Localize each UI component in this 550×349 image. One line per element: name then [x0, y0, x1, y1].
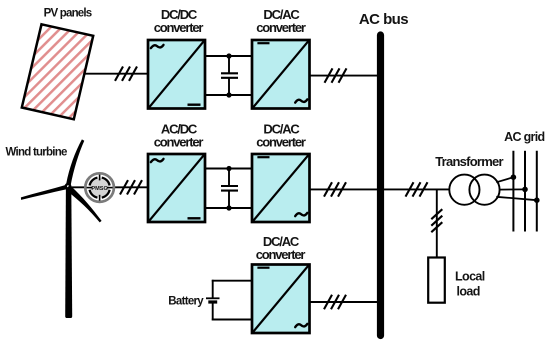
svg-text:Local: Local	[455, 270, 485, 284]
junction dot row2 bottom	[226, 205, 231, 210]
converter U5 DC/AC box	[252, 265, 310, 334]
svg-text:converter: converter	[154, 134, 204, 149]
AC grid phase line 3	[536, 151, 538, 232]
battery vertical wire lower	[212, 302, 214, 320]
svg-text:Battery: Battery	[168, 296, 204, 308]
wind turbine hub	[65, 183, 72, 190]
battery bracket top wire	[212, 280, 252, 282]
three-phase slashes on PV wire	[115, 67, 137, 81]
wire hub to PMSG and PMSG to AC/DC converter	[68, 186, 149, 188]
svg-text:converter: converter	[256, 134, 306, 149]
converter U2 DC/AC box	[252, 40, 310, 109]
battery B1 plates	[206, 298, 220, 302]
junction dot row1 top	[226, 53, 231, 58]
wind turbine blade left	[21, 185, 67, 200]
wind turbine blade lower right	[67, 186, 102, 222]
wind turbine tower	[65, 187, 72, 318]
svg-text:converter: converter	[154, 20, 204, 35]
three-phase slashes row3 output	[324, 295, 346, 309]
wire PV to DC/DC converter	[84, 73, 149, 75]
node dot phase c	[534, 197, 540, 203]
three-phase slashes row2 output	[324, 182, 346, 196]
transformer to grid line phase c	[496, 197, 537, 200]
capacitor C2	[221, 169, 238, 209]
wire U2 to AC bus	[310, 75, 379, 77]
transformer to grid line phase a	[496, 177, 513, 182]
converter U3 AC/DC box	[148, 154, 205, 222]
three-phase slashes bus to transformer	[406, 182, 428, 196]
battery bracket bottom wire	[212, 319, 252, 321]
junction dot row1 bottom	[226, 92, 231, 97]
svg-text:PV panels: PV panels	[44, 8, 92, 20]
svg-text:PMSG: PMSG	[91, 186, 107, 192]
DC link top rail row 1	[205, 55, 252, 57]
PV panels array	[22, 24, 93, 119]
wire U4 to AC bus to transformer	[310, 188, 450, 190]
svg-text:converter: converter	[256, 247, 306, 262]
wind turbine blade up	[66, 139, 84, 185]
three-phase slashes row1 output	[325, 68, 347, 82]
converter U4 DC/AC box	[252, 154, 310, 222]
DC link bottom rail row 1	[205, 94, 252, 96]
svg-text:AC grid: AC grid	[504, 130, 544, 144]
DC link bottom rail row 2	[205, 207, 252, 209]
transformer T1	[449, 175, 499, 205]
three-phase slashes on PMSG wire	[120, 180, 142, 194]
wire U5 to AC bus	[310, 301, 379, 303]
three-phase slashes on local load wire	[431, 209, 442, 232]
DC link top rail row 2	[205, 168, 252, 170]
svg-text:load: load	[457, 285, 480, 299]
node dot phase a	[511, 174, 517, 180]
generator PMSG	[85, 173, 114, 202]
wire down to local load	[436, 189, 438, 258]
svg-text:converter: converter	[256, 20, 306, 35]
svg-text:Wind turbine: Wind turbine	[6, 146, 68, 158]
junction dot row2 top	[226, 166, 231, 171]
AC grid phase line 2	[524, 151, 526, 232]
converter U1 DC/DC box	[148, 40, 205, 109]
node dot phase b	[522, 187, 528, 193]
AC bus bar	[377, 35, 384, 336]
battery vertical wire upper	[212, 280, 214, 299]
local load resistor	[428, 258, 445, 303]
capacitor C1	[221, 56, 238, 95]
svg-text:Transformer: Transformer	[435, 154, 503, 169]
AC grid phase line 1	[512, 151, 514, 232]
svg-text:AC bus: AC bus	[359, 11, 408, 28]
transformer to grid line phase b	[500, 188, 525, 190]
